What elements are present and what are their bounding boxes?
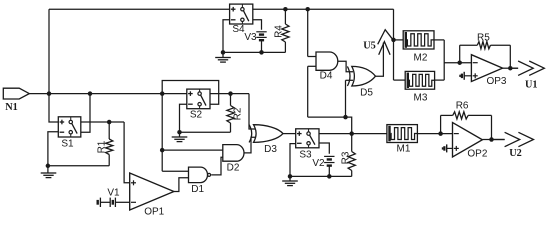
svg-text:D3: D3	[264, 144, 277, 155]
label U5	[363, 41, 376, 52]
svg-text:U5: U5	[363, 41, 376, 52]
wire S2 loop over	[162, 81, 219, 105]
junction dot V3-bottom	[259, 50, 264, 55]
junction dot N1-left	[47, 91, 52, 96]
wire M tap to OP3	[444, 62, 471, 64]
wire D4 in2 drop	[308, 66, 316, 117]
node N1 row	[29, 93, 187, 95]
junction dot S2-ground	[177, 130, 182, 135]
ground icon OP2 plus	[443, 144, 453, 152]
switch S1	[58, 117, 81, 137]
wire to OP1 plus	[124, 122, 130, 183]
wire bottom rail S4	[223, 51, 285, 53]
switch S4	[230, 4, 253, 24]
wire to D2 in1	[162, 149, 223, 151]
wire ground rail S1	[48, 165, 109, 167]
xor-gate D5	[347, 66, 375, 86]
resistor R5	[460, 42, 511, 69]
battery V1	[98, 198, 130, 207]
label V2	[312, 158, 325, 169]
junction dot OP3-out	[508, 66, 513, 71]
svg-text:D5: D5	[360, 88, 373, 99]
wire left drop to N1 node	[48, 9, 50, 93]
label R1	[96, 140, 107, 153]
wire S3 right-bottom to V2	[319, 143, 329, 154]
wire jog horizontal	[308, 116, 346, 118]
label D3	[264, 144, 277, 155]
op-amp OP3	[471, 55, 502, 82]
battery V3	[256, 32, 266, 53]
junction dot M2-left	[391, 38, 396, 43]
nand-gate D1	[189, 167, 211, 183]
junction dot N1-right	[160, 91, 165, 96]
junction dot OP2-out	[489, 137, 494, 142]
svg-text:R3: R3	[341, 151, 352, 164]
wire OP1 out to D1	[174, 178, 189, 192]
svg-text:R4: R4	[273, 25, 284, 38]
label D4	[320, 71, 333, 82]
svg-text:V1: V1	[107, 187, 120, 198]
wire D4 out to D5 in1	[338, 61, 353, 72]
junction dot V2-bottom	[327, 174, 332, 179]
wire S1 minus to ground	[48, 132, 58, 166]
svg-text:S3: S3	[299, 149, 312, 160]
ground S1	[41, 166, 57, 178]
wire top rail	[49, 8, 394, 10]
junction dot S4-ground	[221, 50, 226, 55]
label D5	[360, 88, 373, 99]
junction dot R1-top	[107, 120, 112, 125]
wire S1 output row	[81, 121, 124, 123]
wire bottom rail S3	[290, 175, 352, 177]
junction dot S1-ground	[46, 164, 51, 169]
label U2	[509, 148, 522, 159]
svg-text:R1: R1	[96, 140, 107, 153]
junction dot D2-in1	[160, 148, 165, 153]
svg-text:D1: D1	[191, 184, 204, 195]
label N1	[5, 102, 18, 113]
ground S4	[215, 52, 231, 62]
wire D5 out to U5	[376, 43, 384, 77]
svg-text:N1: N1	[5, 102, 18, 113]
output flag U2	[492, 132, 534, 146]
label M1	[397, 144, 411, 155]
wire S4 right-bottom to V3	[253, 20, 262, 30]
svg-text:M1: M1	[397, 144, 411, 155]
junction dot top-D4	[305, 7, 310, 12]
and-gate D2	[223, 145, 244, 162]
svg-text:D2: D2	[227, 162, 240, 173]
svg-text:OP1: OP1	[144, 207, 164, 218]
label S2	[190, 109, 203, 120]
label V3	[244, 32, 257, 43]
wire D3 out to S3	[283, 133, 296, 135]
wire OP2 out	[482, 139, 504, 141]
svg-text:R5: R5	[477, 33, 490, 44]
wire N1 to S1 right-bottom	[81, 94, 90, 133]
output flag U5	[378, 30, 394, 55]
wire S4 minus leg	[223, 20, 230, 53]
junction dot N1-mid	[88, 91, 93, 96]
switch S3	[296, 129, 319, 148]
ground S2	[172, 132, 188, 141]
switch S2	[187, 89, 210, 109]
label M3	[414, 93, 428, 104]
wire D4 in1 drop	[308, 9, 316, 56]
wire S3 minus leg	[290, 144, 296, 177]
junction dot OP2-in	[438, 131, 443, 136]
wire M-left vertical	[394, 40, 406, 80]
label D2	[227, 162, 240, 173]
resistor R3	[348, 134, 355, 177]
junction dot jog	[343, 115, 348, 120]
wire S2 out to D3 in1	[249, 94, 255, 129]
wire M right vertical	[434, 40, 444, 80]
wire mid vertical	[162, 94, 188, 172]
label OP2	[467, 148, 487, 159]
svg-text:S2: S2	[190, 109, 203, 120]
input flag N1	[3, 88, 29, 99]
memristor M3	[405, 71, 434, 89]
svg-text:M3: M3	[414, 93, 428, 104]
junction dot R2-top	[228, 91, 233, 96]
ground icon OP3 plus	[460, 72, 471, 80]
label R5	[477, 33, 490, 44]
wire OP3 out	[503, 67, 518, 69]
memristor M1	[387, 125, 418, 143]
wire M1 to OP2	[417, 133, 452, 135]
label R6	[456, 100, 469, 111]
wire D2 out to D3 in2	[244, 137, 257, 153]
battery V2	[324, 156, 334, 176]
op-amp OP2	[453, 123, 483, 158]
op-amp OP1	[130, 173, 174, 210]
label S4	[232, 24, 245, 35]
ground S3	[282, 176, 298, 185]
svg-text:OP2: OP2	[467, 148, 487, 159]
svg-text:U2: U2	[509, 148, 522, 159]
label OP3	[486, 76, 506, 87]
junction dot OP3-in	[457, 60, 462, 64]
resistor R1	[106, 122, 113, 166]
resistor R2	[227, 94, 234, 123]
svg-text:S4: S4	[232, 24, 245, 35]
junction dot S3-ground	[288, 174, 293, 179]
wire jog to M1 row	[346, 117, 352, 134]
and-gate D4	[316, 52, 338, 70]
wire D5 in2 drop	[346, 80, 354, 117]
svg-text:R6: R6	[456, 100, 469, 111]
label OP1	[144, 207, 164, 218]
junction dot R3-top	[349, 131, 354, 136]
label S3	[299, 149, 312, 160]
wire S3 out row to M1	[319, 133, 387, 135]
label V1	[107, 187, 120, 198]
label R2	[233, 107, 244, 120]
wire ground to R2 bottom	[180, 123, 231, 132]
label R3	[341, 151, 352, 164]
output flag U1	[510, 61, 544, 75]
svg-text:R2: R2	[233, 107, 244, 120]
xor-gate D3	[249, 125, 283, 143]
wire D1 out to D2 in2	[211, 157, 223, 175]
wire M2 left lead	[394, 39, 404, 41]
memristor M2	[403, 31, 434, 49]
label R4	[273, 25, 284, 38]
svg-text:M2: M2	[414, 53, 428, 64]
svg-text:D4: D4	[320, 71, 333, 82]
wire N1 to S1 plus	[49, 94, 58, 122]
wire S2 minus to ground	[180, 104, 187, 132]
wire S2 out row	[210, 93, 249, 95]
svg-text:S1: S1	[61, 139, 74, 150]
label S1	[61, 139, 74, 150]
svg-text:V3: V3	[244, 32, 257, 43]
resistor R4	[282, 9, 289, 52]
svg-text:V2: V2	[312, 158, 325, 169]
label U1	[525, 80, 538, 91]
svg-text:OP3: OP3	[486, 76, 506, 87]
label M2	[414, 53, 428, 64]
junction dot R4-top	[283, 7, 288, 12]
resistor R6	[441, 112, 492, 140]
label D1	[191, 184, 204, 195]
svg-text:U1: U1	[525, 80, 538, 91]
wire top rail right drop	[393, 9, 395, 40]
